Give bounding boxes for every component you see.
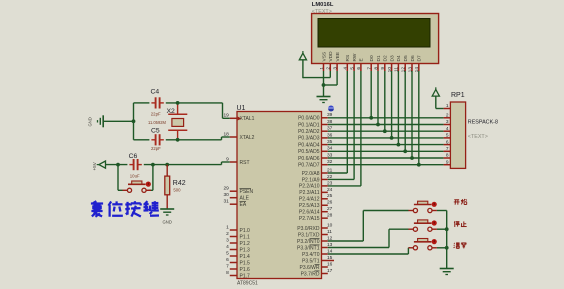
LCD pin labels VSS VDD VEE RS RW E D0-D7 xyxy=(321,51,422,62)
svg-text:24: 24 xyxy=(327,187,333,193)
svg-text:27: 27 xyxy=(327,206,333,212)
svg-text:P2.4/A12: P2.4/A12 xyxy=(299,197,320,203)
wire LCD RW to P2.1 xyxy=(328,71,354,179)
wire VEE down and left xyxy=(323,71,337,85)
svg-text:30: 30 xyxy=(223,192,229,198)
ground (buttons) xyxy=(440,269,454,275)
svg-text:D7: D7 xyxy=(417,55,423,61)
node stop junction xyxy=(445,227,449,231)
svg-text:P1.5: P1.5 xyxy=(240,260,251,266)
button (reset) xyxy=(123,181,152,192)
svg-text:VSS: VSS xyxy=(321,52,327,62)
svg-text:1: 1 xyxy=(446,103,449,109)
svg-text:RS: RS xyxy=(345,55,351,62)
svg-text:22pF: 22pF xyxy=(151,111,161,116)
crystal X2 body xyxy=(172,119,184,127)
svg-text:P0.2/AD2: P0.2/AD2 xyxy=(298,129,320,135)
svg-text:6: 6 xyxy=(226,257,229,263)
op-amp U1 body AT89C51 xyxy=(237,112,322,279)
svg-text:P2.5/A13: P2.5/A13 xyxy=(299,203,320,209)
svg-text:P2.2/A10: P2.2/A10 xyxy=(299,184,320,190)
svg-text:VEE: VEE xyxy=(335,52,341,62)
MCU left pin stubs xyxy=(230,118,237,275)
MCU right pin numbers xyxy=(327,112,333,274)
svg-text:P3.0/RXD: P3.0/RXD xyxy=(297,226,320,232)
svg-text:P0.4/AD4: P0.4/AD4 xyxy=(298,142,320,148)
svg-text:8: 8 xyxy=(226,270,229,276)
capacitor C4 xyxy=(151,97,163,108)
svg-text:5: 5 xyxy=(226,250,229,256)
svg-text:+5V: +5V xyxy=(92,161,97,170)
resistor pack RP1 body xyxy=(450,102,465,168)
svg-text:R42: R42 xyxy=(173,180,186,187)
label 清零 xyxy=(454,242,467,248)
svg-text:P3.2/INT0: P3.2/INT0 xyxy=(297,239,320,245)
svg-text:LM016L: LM016L xyxy=(312,2,334,8)
svg-text:2: 2 xyxy=(226,231,229,237)
svg-text:PSEN: PSEN xyxy=(240,189,254,195)
svg-text:D0: D0 xyxy=(369,55,375,61)
node VSS/VEE junction xyxy=(322,83,326,87)
svg-text:RW: RW xyxy=(352,53,358,61)
svg-text:7: 7 xyxy=(226,263,229,269)
svg-text:P2.6/A14: P2.6/A14 xyxy=(299,210,320,216)
svg-text:P2.7/A15: P2.7/A15 xyxy=(299,216,320,222)
svg-text:500: 500 xyxy=(173,187,181,192)
ground (LCD) xyxy=(317,97,331,103)
svg-text:RESPACK-8: RESPACK-8 xyxy=(468,119,498,125)
clock input marker XTAL1 xyxy=(238,117,242,121)
svg-text:P3.3/INT1: P3.3/INT1 xyxy=(297,245,320,251)
svg-text:31: 31 xyxy=(223,199,229,205)
svg-text:D3: D3 xyxy=(389,55,395,61)
svg-text:RP1: RP1 xyxy=(451,92,465,99)
ground (R42) xyxy=(160,209,174,215)
MCU right pin labels xyxy=(297,116,320,278)
svg-text:D6: D6 xyxy=(410,55,416,61)
wire P0 rows to RP1 xyxy=(328,118,444,165)
crystal X2 leads xyxy=(177,103,179,140)
node reset-button left xyxy=(116,163,120,167)
svg-text:EA: EA xyxy=(240,202,247,208)
svg-text:P1.3: P1.3 xyxy=(240,247,251,253)
node left rail junction xyxy=(132,119,136,123)
svg-text:XTAL2: XTAL2 xyxy=(240,135,255,141)
svg-text:22pF: 22pF xyxy=(151,146,161,151)
MCU left pin labels xyxy=(240,116,255,279)
svg-text:26: 26 xyxy=(327,200,333,206)
wire ground tap xyxy=(103,120,133,122)
svg-text:P3.7/RD: P3.7/RD xyxy=(301,271,320,277)
svg-text:P0.7/AD7: P0.7/AD7 xyxy=(298,163,320,169)
node reset-button right xyxy=(151,163,155,167)
node crystal top xyxy=(176,101,180,105)
svg-text:P0.6/AD6: P0.6/AD6 xyxy=(298,156,320,162)
svg-text:VDD: VDD xyxy=(328,51,334,62)
svg-text:P2.3/A11: P2.3/A11 xyxy=(299,190,319,196)
power +5V arrow (LCD VDD) xyxy=(299,51,306,60)
svg-text:C4: C4 xyxy=(151,89,160,96)
svg-text:16: 16 xyxy=(327,261,333,267)
svg-text:U1: U1 xyxy=(237,105,246,112)
svg-text:C6: C6 xyxy=(129,153,138,160)
button stop xyxy=(408,220,437,231)
svg-text:P3.6/WR: P3.6/WR xyxy=(299,265,319,271)
svg-text:8: 8 xyxy=(446,153,449,159)
svg-text:9: 9 xyxy=(446,159,449,165)
MCU right pin stubs xyxy=(322,118,335,274)
wire P3.3 to stop button xyxy=(328,229,409,247)
label 复位按键 (reset button, blue) xyxy=(91,201,159,217)
svg-text:D5: D5 xyxy=(403,55,409,61)
node crystal bottom xyxy=(176,138,180,142)
svg-text:D2: D2 xyxy=(383,55,389,61)
crystal X2 plates xyxy=(168,114,187,130)
svg-text:29: 29 xyxy=(223,186,229,192)
label 开始 xyxy=(454,199,467,205)
svg-text:3: 3 xyxy=(226,237,229,243)
wire VDD to +5V arrow xyxy=(303,60,330,78)
wire reset rail xyxy=(106,162,230,165)
svg-text:18: 18 xyxy=(223,131,229,137)
wire LCD RS to P2.0 xyxy=(328,71,348,173)
svg-text:17: 17 xyxy=(327,268,333,274)
svg-text:15: 15 xyxy=(327,255,333,261)
capacitor C5 xyxy=(151,134,163,145)
wire junction to ground xyxy=(323,85,325,96)
MCU left pin numbers xyxy=(223,113,229,276)
LCD pin numbers 1-14 xyxy=(319,67,420,73)
svg-text:P3.5/T1: P3.5/T1 xyxy=(302,258,320,264)
svg-text:2: 2 xyxy=(446,113,449,119)
LCD LM016L body xyxy=(312,14,439,64)
wire button branch xyxy=(118,165,153,191)
svg-text:P3.1/TXD: P3.1/TXD xyxy=(298,232,320,238)
svg-text:ALE: ALE xyxy=(240,196,250,202)
svg-text:4: 4 xyxy=(446,126,449,132)
wire P3.2 to start button xyxy=(328,211,409,242)
svg-text:E: E xyxy=(359,58,365,61)
svg-text:25: 25 xyxy=(327,193,333,199)
svg-text:P0.3/AD3: P0.3/AD3 xyxy=(298,136,320,142)
button start xyxy=(408,201,437,212)
svg-text:XTAL1: XTAL1 xyxy=(240,116,255,122)
node R42 top xyxy=(165,163,169,167)
svg-text:11.0592M: 11.0592M xyxy=(148,120,166,125)
wire left rail xyxy=(133,103,135,140)
svg-text:4: 4 xyxy=(226,244,229,250)
svg-text:9: 9 xyxy=(226,156,229,162)
svg-text:GND: GND xyxy=(163,219,172,224)
label 停止 xyxy=(454,221,466,227)
wire LCD data D0-D7 verticals xyxy=(371,71,419,165)
svg-text:P1.6: P1.6 xyxy=(240,267,251,273)
svg-text:AT89C51: AT89C51 xyxy=(237,280,258,286)
svg-text:D4: D4 xyxy=(396,55,402,61)
svg-text:D1: D1 xyxy=(376,55,382,61)
svg-text:<TEXT>: <TEXT> xyxy=(468,134,488,140)
svg-text:P3.4/T0: P3.4/T0 xyxy=(302,252,320,258)
svg-text:10uF: 10uF xyxy=(130,174,140,179)
LCD pin stubs xyxy=(324,64,419,72)
wire buttons common to ground xyxy=(437,211,447,269)
svg-text:11: 11 xyxy=(327,229,332,235)
svg-text:P1.0: P1.0 xyxy=(240,228,251,234)
svg-text:10: 10 xyxy=(327,222,333,228)
LCD screen xyxy=(318,19,430,48)
capacitor C6 xyxy=(129,159,141,170)
svg-text:5: 5 xyxy=(446,133,449,139)
ground (crystal, rotated) xyxy=(98,115,104,127)
svg-text:P2.0/A8: P2.0/A8 xyxy=(302,171,320,177)
svg-text:6: 6 xyxy=(446,139,449,145)
resistor R42 body xyxy=(165,176,170,195)
svg-text:P1.4: P1.4 xyxy=(240,254,251,260)
wire VSS down xyxy=(323,71,325,86)
svg-text:GND: GND xyxy=(88,117,93,126)
svg-text:P0.5/AD5: P0.5/AD5 xyxy=(298,149,320,155)
svg-text:P1.2: P1.2 xyxy=(240,241,251,247)
RP1 pin numbers 1-9 xyxy=(446,103,449,165)
svg-text:28: 28 xyxy=(327,213,333,219)
origin marker (blue) xyxy=(328,106,334,112)
wire LCD E to P2.2 xyxy=(328,71,361,186)
svg-text:7: 7 xyxy=(446,146,449,152)
RP1 pin stubs xyxy=(444,109,451,165)
svg-text:1: 1 xyxy=(226,224,229,230)
svg-text:RST: RST xyxy=(240,160,250,166)
button clear xyxy=(408,239,437,250)
svg-text:3: 3 xyxy=(446,119,449,125)
svg-text:P1.1: P1.1 xyxy=(240,234,251,240)
svg-text:P2.1/A9: P2.1/A9 xyxy=(302,177,320,183)
node D-P0 junctions xyxy=(369,116,420,167)
wire top rail C4/XTAL1 xyxy=(134,103,230,118)
wire P3.4 to clear button xyxy=(328,248,410,254)
svg-text:19: 19 xyxy=(223,113,229,119)
svg-text:P1.7: P1.7 xyxy=(240,273,251,279)
power +5V arrow (reset rail) xyxy=(97,161,106,168)
svg-text:P0.1/AD1: P0.1/AD1 xyxy=(298,122,320,128)
wire bottom rail C5/XTAL2 xyxy=(134,137,230,140)
power +5V arrow (RP1) xyxy=(432,87,443,108)
resistor R42 leads xyxy=(166,165,168,209)
node clear junction xyxy=(445,246,449,250)
svg-text:X2: X2 xyxy=(167,108,176,115)
svg-text:C5: C5 xyxy=(151,127,160,134)
svg-text:P0.0/AD0: P0.0/AD0 xyxy=(298,116,320,122)
